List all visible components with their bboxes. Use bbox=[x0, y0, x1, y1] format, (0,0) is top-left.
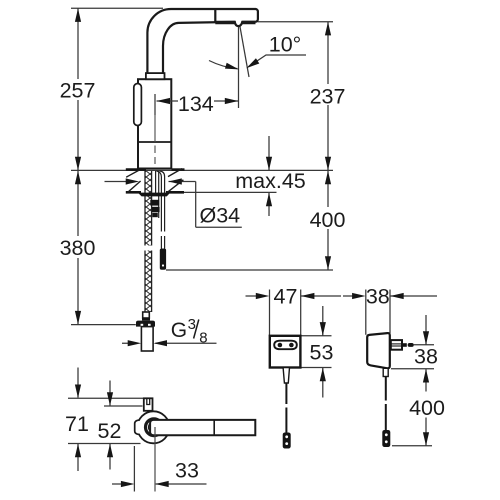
dim G38 arrows bbox=[122, 342, 217, 344]
svg-text:8: 8 bbox=[199, 330, 207, 347]
svg-text:134: 134 bbox=[178, 92, 214, 116]
side lever bbox=[134, 84, 142, 126]
control box cable bbox=[285, 383, 287, 433]
svg-text:33: 33 bbox=[175, 459, 199, 483]
svg-text:max.45: max.45 bbox=[235, 169, 306, 193]
10 deg stream line bbox=[240, 25, 249, 77]
top view left clip bump bbox=[135, 420, 140, 435]
dim 134 left tick and arrow over body bbox=[155, 94, 178, 115]
body separation line bbox=[138, 141, 171, 143]
ext hose end bbox=[71, 324, 136, 326]
svg-text:380: 380 bbox=[60, 236, 96, 260]
ext line deck bottom bbox=[174, 191, 277, 193]
dim 33 bbox=[112, 446, 207, 492]
svg-text:G: G bbox=[171, 319, 187, 342]
dim 53 bbox=[301, 306, 332, 398]
svg-text:400: 400 bbox=[409, 396, 445, 420]
top view spout stub bbox=[144, 398, 153, 411]
body centerline bbox=[154, 115, 156, 164]
dim line 380 bbox=[77, 171, 79, 324]
svg-text:400: 400 bbox=[310, 208, 346, 232]
svg-text:237: 237 bbox=[310, 85, 346, 109]
ext line spout tip bbox=[258, 21, 334, 23]
dim 134 right part bbox=[214, 25, 239, 108]
bottom figure ext lines bbox=[68, 397, 144, 399]
control box bbox=[270, 336, 301, 368]
G 3/8 label bbox=[171, 316, 208, 347]
jack pin bbox=[403, 343, 407, 347]
psu ext lines bbox=[391, 345, 434, 446]
svg-text:38: 38 bbox=[366, 285, 390, 309]
svg-text:47: 47 bbox=[274, 285, 298, 309]
svg-text:71: 71 bbox=[65, 412, 89, 436]
mounting blocks bbox=[150, 200, 159, 206]
dim 38 right and 400 right bbox=[425, 315, 427, 446]
svg-text:38: 38 bbox=[414, 345, 438, 369]
top view lever bar bbox=[150, 420, 255, 435]
figure centerline down from circle center bbox=[154, 427, 156, 492]
deck surface thick lines bbox=[126, 170, 185, 193]
euro socket bbox=[274, 341, 297, 350]
svg-text:52: 52 bbox=[98, 419, 122, 443]
svg-text:53: 53 bbox=[310, 341, 334, 365]
dim 71 bbox=[77, 368, 79, 472]
dim 52 bbox=[109, 381, 111, 470]
control box strain relief bbox=[283, 368, 289, 384]
collar bbox=[146, 73, 165, 79]
hose end tube bbox=[141, 327, 153, 351]
dim line 400 left bbox=[327, 171, 329, 270]
leader O34 bbox=[105, 182, 242, 228]
svg-text:3: 3 bbox=[188, 316, 196, 333]
braided hose bbox=[145, 171, 152, 312]
deck hatch strokes bbox=[126, 169, 183, 193]
dim line max45 bbox=[268, 136, 270, 216]
ext line top spout bbox=[71, 7, 163, 9]
dim row 47/38 bbox=[246, 290, 438, 337]
10 deg arc arrow bbox=[209, 61, 238, 69]
control box cable connector bbox=[283, 433, 291, 449]
faucet cable connector bbox=[160, 249, 166, 270]
top view: outer circle bbox=[137, 411, 169, 443]
power supply body bbox=[367, 333, 390, 368]
faucet spout outline bbox=[147, 9, 258, 73]
spout joint line bbox=[214, 9, 216, 22]
psu cable connector bbox=[382, 430, 390, 447]
svg-text:Ø34: Ø34 bbox=[200, 204, 241, 228]
ext line cable end bbox=[166, 269, 333, 271]
10 deg leader bbox=[249, 55, 307, 67]
hose fitting crimp collar bbox=[142, 312, 150, 321]
svg-text:257: 257 bbox=[60, 79, 96, 103]
arrowheads bbox=[75, 8, 429, 487]
ext line deck bbox=[71, 169, 333, 171]
psu strain relief bbox=[383, 368, 388, 376]
psu cable bbox=[385, 377, 387, 431]
top view ring bbox=[146, 419, 163, 436]
svg-text:10°: 10° bbox=[269, 33, 302, 57]
hose fitting nut bbox=[136, 321, 155, 327]
faucet body bbox=[138, 79, 171, 168]
jack barrel bbox=[391, 340, 402, 350]
dim line 237 bbox=[327, 22, 329, 170]
dim line 257 bbox=[77, 8, 79, 170]
washer plate bbox=[139, 193, 170, 197]
under-deck shank lines bbox=[156, 171, 165, 249]
